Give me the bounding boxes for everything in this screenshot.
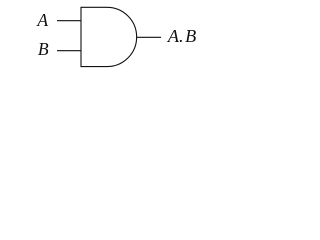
svg-text:A: A [36, 10, 48, 30]
AND gate U1 body [81, 7, 137, 66]
wire input B [57, 50, 81, 52]
svg-text:A.B: A.B [167, 26, 196, 46]
svg-text:B: B [38, 39, 49, 59]
wire output [136, 36, 161, 38]
wire input A [57, 20, 81, 22]
